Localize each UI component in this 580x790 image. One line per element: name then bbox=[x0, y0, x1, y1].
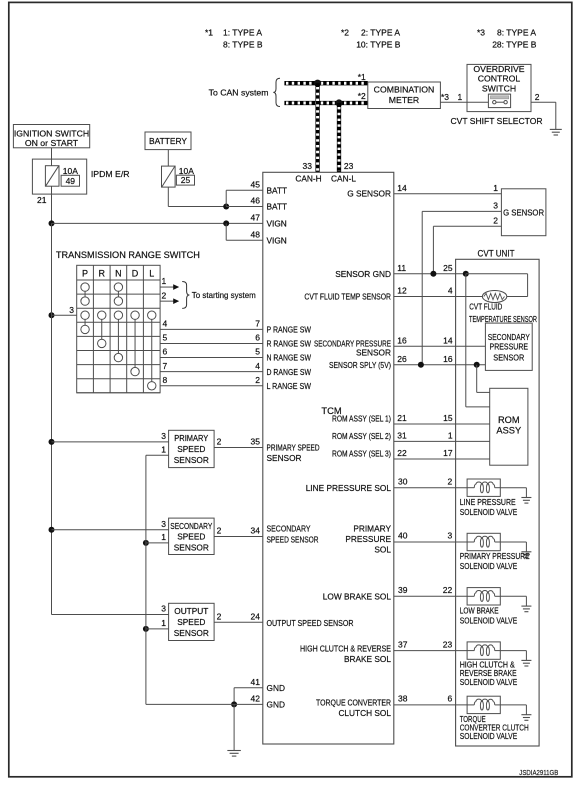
svg-text:LINE PRESSURE: LINE PRESSURE bbox=[460, 497, 516, 507]
low brake solenoid valve coil bbox=[467, 588, 500, 605]
svg-text:PRIMARY PRESSURE: PRIMARY PRESSURE bbox=[460, 551, 530, 561]
wire G3 supply bbox=[422, 210, 501, 212]
wire secondary pin3 bbox=[52, 529, 169, 531]
svg-text:SOLENOID VALVE: SOLENOID VALVE bbox=[460, 561, 518, 571]
g sensor box bbox=[501, 189, 546, 236]
svg-text:SENSOR SPLY (5V): SENSOR SPLY (5V) bbox=[329, 360, 391, 370]
wire CAN-L horizontal bbox=[284, 101, 367, 105]
svg-text:SPEED: SPEED bbox=[177, 444, 205, 454]
svg-text:VIGN: VIGN bbox=[267, 218, 287, 228]
svg-text:N RANGE SW: N RANGE SW bbox=[267, 353, 312, 363]
svg-text:21: 21 bbox=[397, 413, 407, 423]
junction BATT bbox=[223, 204, 229, 210]
svg-text:33: 33 bbox=[303, 161, 313, 171]
wire range out 6 bbox=[160, 357, 263, 359]
junction bus range 3 bbox=[49, 312, 55, 318]
svg-text:To CAN system: To CAN system bbox=[209, 88, 269, 98]
svg-text:IPDM E/R: IPDM E/R bbox=[91, 169, 130, 179]
svg-text:PRIMARY: PRIMARY bbox=[174, 433, 208, 443]
svg-text:P: P bbox=[82, 268, 88, 278]
primary pressure solenoid valve ground wire bbox=[500, 541, 526, 543]
svg-text:46: 46 bbox=[251, 195, 261, 205]
range switch grid bbox=[77, 265, 160, 393]
svg-text:BATTERY: BATTERY bbox=[149, 136, 187, 146]
svg-text:D RANGE SW: D RANGE SW bbox=[267, 367, 312, 377]
junction sensor gnd cvt bbox=[463, 271, 469, 277]
svg-text:7: 7 bbox=[163, 361, 168, 371]
svg-text:47: 47 bbox=[251, 212, 261, 222]
CVT unit box bbox=[456, 259, 539, 746]
svg-text:3: 3 bbox=[447, 531, 452, 541]
svg-text:14: 14 bbox=[443, 335, 453, 345]
wire range out 2 bbox=[160, 300, 173, 302]
svg-text:34: 34 bbox=[251, 526, 261, 536]
wire gnd loop to temp sensor bbox=[466, 273, 528, 275]
svg-text:37: 37 bbox=[398, 639, 408, 649]
high clutch and reverse brake solenoid valve ground wire bbox=[500, 650, 526, 652]
svg-text:4: 4 bbox=[255, 361, 260, 371]
svg-text:23: 23 bbox=[344, 161, 354, 171]
svg-text:30: 30 bbox=[398, 476, 408, 486]
wire output pin3 bbox=[52, 614, 169, 616]
wire output pin1 bbox=[146, 628, 169, 630]
svg-text:JSDIA2911GB: JSDIA2911GB bbox=[519, 768, 558, 777]
svg-text:2: 2 bbox=[217, 611, 222, 621]
svg-text:31: 31 bbox=[397, 431, 407, 441]
svg-text:4: 4 bbox=[163, 318, 168, 328]
svg-text:SPEED SENSOR: SPEED SENSOR bbox=[267, 535, 319, 545]
svg-text:SENSOR: SENSOR bbox=[174, 628, 209, 638]
line pressure solenoid valve ground bbox=[521, 497, 531, 499]
svg-text:SECONDARY: SECONDARY bbox=[488, 332, 530, 342]
svg-text:21: 21 bbox=[37, 195, 47, 205]
svg-text:1: 1 bbox=[161, 618, 166, 628]
svg-text:39: 39 bbox=[398, 585, 408, 595]
svg-text:26: 26 bbox=[397, 354, 407, 364]
ground selector bbox=[550, 128, 562, 130]
svg-text:35: 35 bbox=[251, 437, 261, 447]
svg-text:CVT FLUID TEMP SENSOR: CVT FLUID TEMP SENSOR bbox=[304, 292, 391, 302]
svg-text:25: 25 bbox=[443, 263, 453, 273]
high clutch and reverse brake solenoid valve coil bbox=[467, 642, 500, 659]
svg-text:49: 49 bbox=[66, 176, 76, 186]
wire CAN-H horizontal bbox=[284, 81, 367, 85]
svg-text:SWITCH: SWITCH bbox=[482, 83, 516, 93]
svg-text:38: 38 bbox=[398, 694, 408, 704]
svg-text:SENSOR: SENSOR bbox=[174, 455, 209, 465]
junction GND bbox=[231, 701, 237, 707]
svg-text:11: 11 bbox=[397, 263, 406, 273]
svg-text:OVERDRIVE: OVERDRIVE bbox=[473, 64, 524, 74]
switch symbol bbox=[488, 94, 510, 108]
wire CAN-L vertical bbox=[337, 103, 341, 172]
svg-text:BRAKE SOL: BRAKE SOL bbox=[344, 654, 391, 664]
svg-text:41: 41 bbox=[251, 677, 261, 687]
low brake solenoid valve ground wire bbox=[500, 595, 526, 597]
wire sensor shield bus bbox=[145, 455, 147, 704]
low brake solenoid valve ground bbox=[521, 605, 531, 607]
wire jog to 48 bbox=[225, 223, 227, 240]
svg-text:BATT: BATT bbox=[267, 202, 288, 212]
wire TCM38 to solenoid bbox=[394, 704, 467, 706]
wire G2 gnd bbox=[433, 225, 501, 227]
svg-text:BATT: BATT bbox=[267, 185, 288, 195]
junction ignition bus bbox=[49, 220, 55, 226]
junction sply rom bbox=[474, 362, 480, 368]
range switch contact links bbox=[84, 291, 86, 297]
svg-text:TEMPERATURE SENSOR: TEMPERATURE SENSOR bbox=[469, 314, 537, 324]
wire TCM21 rom15 bbox=[394, 423, 490, 425]
svg-text:2: TYPE A: 2: TYPE A bbox=[361, 28, 400, 38]
svg-text:CLUTCH SOL: CLUTCH SOL bbox=[338, 708, 391, 718]
svg-text:ROM ASSY (SEL 1): ROM ASSY (SEL 1) bbox=[332, 414, 391, 424]
svg-text:VIGN: VIGN bbox=[267, 235, 287, 245]
primary pressure solenoid valve coil bbox=[467, 533, 500, 550]
svg-text:GND: GND bbox=[267, 683, 285, 693]
svg-text:P RANGE SW: P RANGE SW bbox=[267, 325, 312, 335]
svg-text:8: TYPE B: 8: TYPE B bbox=[223, 40, 263, 50]
svg-text:1: 1 bbox=[162, 276, 167, 286]
svg-text:4: 4 bbox=[448, 286, 453, 296]
wire fuse down to junction bbox=[51, 186, 53, 223]
svg-text:CAN-L: CAN-L bbox=[331, 174, 356, 184]
svg-text:SPEED: SPEED bbox=[177, 532, 205, 542]
svg-text:6: 6 bbox=[255, 333, 260, 343]
svg-text:*3: *3 bbox=[477, 28, 485, 38]
svg-text:L RANGE SW: L RANGE SW bbox=[267, 381, 312, 391]
wire CAN-H vertical bbox=[315, 83, 319, 172]
secondary pressure sensor box bbox=[485, 323, 532, 370]
svg-text:48: 48 bbox=[251, 229, 261, 239]
wire meter to overdrive switch bbox=[440, 101, 488, 103]
svg-text:COMBINATION: COMBINATION bbox=[374, 85, 435, 95]
wire range out 8 bbox=[160, 385, 263, 387]
high clutch and reverse brake solenoid valve ground bbox=[521, 659, 531, 661]
torque converter clutch solenoid valve ground wire bbox=[500, 704, 526, 706]
wire bus1 to output sensor bbox=[52, 614, 169, 616]
wire TCM30 to solenoid bbox=[394, 487, 467, 489]
junction CAN-L bbox=[335, 99, 342, 106]
wire jog to 45 bbox=[225, 190, 227, 206]
wire secondary pin2 to TCM 34 bbox=[214, 536, 263, 538]
svg-text:LOW BRAKE: LOW BRAKE bbox=[460, 606, 499, 616]
svg-text:CONTROL: CONTROL bbox=[478, 74, 521, 84]
junction bus2 output 1 bbox=[143, 626, 149, 632]
svg-text:OUTPUT: OUTPUT bbox=[174, 606, 208, 616]
svg-text:R RANGE SW: R RANGE SW bbox=[267, 339, 312, 349]
svg-text:PRIMARY SPEED: PRIMARY SPEED bbox=[267, 443, 320, 453]
svg-text:22: 22 bbox=[397, 448, 407, 458]
svg-text:SENSOR: SENSOR bbox=[174, 542, 209, 552]
svg-text:2: 2 bbox=[217, 437, 222, 447]
fuse number 25 box bbox=[176, 175, 194, 185]
svg-text:*1: *1 bbox=[205, 28, 213, 38]
torque converter clutch solenoid valve coil bbox=[467, 696, 500, 713]
svg-text:To starting system: To starting system bbox=[192, 290, 256, 300]
svg-text:SOLENOID VALVE: SOLENOID VALVE bbox=[460, 677, 518, 687]
range switch contacts bbox=[81, 283, 89, 291]
svg-text:6: 6 bbox=[447, 694, 452, 704]
svg-text:40: 40 bbox=[398, 531, 408, 541]
wire primary pin1 bbox=[146, 454, 169, 456]
svg-text:GND: GND bbox=[267, 700, 285, 710]
svg-text:22: 22 bbox=[443, 585, 453, 595]
svg-text:SOL: SOL bbox=[374, 544, 391, 554]
ground TCM bbox=[227, 750, 241, 752]
svg-text:6: 6 bbox=[163, 347, 168, 357]
junction CAN-H bbox=[314, 80, 321, 87]
wire sply to rom bbox=[476, 365, 478, 393]
svg-text:R: R bbox=[99, 268, 106, 278]
wire TCM16 sps bbox=[394, 345, 486, 347]
svg-text:2: 2 bbox=[535, 92, 540, 102]
brace starting system bbox=[182, 282, 189, 309]
svg-text:SENSOR: SENSOR bbox=[267, 453, 302, 463]
svg-text:1: 1 bbox=[458, 92, 463, 102]
wire TCM11 sensor gnd bbox=[394, 273, 466, 275]
svg-text:15: 15 bbox=[443, 413, 453, 423]
wire TCM31 rom1 bbox=[394, 440, 490, 442]
fuse number 49 box bbox=[61, 175, 79, 186]
svg-text:28: TYPE B: 28: TYPE B bbox=[492, 40, 537, 50]
svg-text:*2: *2 bbox=[341, 28, 349, 38]
svg-text:*3: *3 bbox=[441, 92, 449, 102]
svg-text:16: 16 bbox=[397, 335, 407, 345]
svg-text:14: 14 bbox=[397, 183, 407, 193]
wire secondary pin1 bbox=[146, 542, 169, 544]
svg-text:2: 2 bbox=[493, 215, 498, 225]
svg-text:5: 5 bbox=[163, 333, 168, 343]
svg-text:G SENSOR: G SENSOR bbox=[347, 189, 391, 199]
svg-text:OUTPUT SPEED SENSOR: OUTPUT SPEED SENSOR bbox=[267, 618, 354, 628]
wire range out 5 bbox=[160, 342, 263, 344]
svg-text:1: 1 bbox=[493, 183, 498, 193]
svg-text:1: 1 bbox=[448, 431, 453, 441]
svg-text:SECONDARY: SECONDARY bbox=[170, 521, 212, 531]
svg-text:D: D bbox=[132, 268, 139, 278]
svg-text:*1: *1 bbox=[358, 72, 366, 82]
wire battery to fuse bbox=[167, 150, 169, 167]
junction VIGN bbox=[223, 220, 229, 226]
svg-text:SENSOR: SENSOR bbox=[493, 353, 524, 363]
svg-text:PRESSURE: PRESSURE bbox=[490, 342, 529, 352]
svg-text:ROM ASSY (SEL 3): ROM ASSY (SEL 3) bbox=[332, 449, 391, 459]
wire switch to ground bbox=[531, 101, 556, 103]
svg-text:42: 42 bbox=[251, 694, 261, 704]
wire range 3 bbox=[52, 314, 77, 316]
svg-text:ON or START: ON or START bbox=[25, 138, 79, 148]
junction bus primary 3 bbox=[49, 439, 55, 445]
svg-text:16: 16 bbox=[443, 354, 453, 364]
svg-text:3: 3 bbox=[161, 519, 166, 529]
wire TCM40 to solenoid bbox=[394, 541, 467, 543]
svg-text:2: 2 bbox=[162, 290, 167, 300]
torque converter clutch solenoid valve ground bbox=[521, 714, 531, 716]
wire range out 4 bbox=[160, 328, 263, 330]
wire TCM39 to solenoid bbox=[394, 595, 467, 597]
svg-text:3: 3 bbox=[161, 604, 166, 614]
line pressure solenoid valve ground wire bbox=[500, 487, 526, 489]
svg-text:HIGH CLUTCH & REVERSE: HIGH CLUTCH & REVERSE bbox=[300, 644, 391, 654]
wire TCM22 rom17 bbox=[394, 458, 490, 460]
wire GND 42 bbox=[146, 703, 263, 705]
wire output pin2 to TCM 24 bbox=[214, 621, 263, 623]
svg-text:METER: METER bbox=[389, 95, 419, 105]
svg-text:SPEED: SPEED bbox=[177, 617, 205, 627]
wire GND 41 bbox=[234, 687, 263, 689]
wire primary pin3 bbox=[52, 441, 169, 443]
svg-text:1: 1 bbox=[161, 444, 166, 454]
svg-text:1: TYPE A: 1: TYPE A bbox=[223, 28, 262, 38]
cvt fluid temperature sensor bbox=[482, 291, 506, 303]
wire TCM12 temp bbox=[394, 296, 483, 298]
svg-text:10A: 10A bbox=[63, 166, 78, 176]
svg-text:8: TYPE A: 8: TYPE A bbox=[497, 28, 536, 38]
line pressure solenoid valve coil bbox=[467, 479, 500, 496]
svg-text:45: 45 bbox=[251, 179, 261, 189]
brace CAN bbox=[273, 78, 280, 106]
junction bus2 secondary 1 bbox=[143, 540, 149, 546]
wire range out 7 bbox=[160, 371, 263, 373]
svg-text:1: 1 bbox=[161, 532, 166, 542]
svg-text:ASSY: ASSY bbox=[496, 426, 521, 436]
svg-text:7: 7 bbox=[255, 318, 260, 328]
junction sply G3 bbox=[418, 362, 424, 368]
svg-text:10: TYPE B: 10: TYPE B bbox=[356, 40, 401, 50]
wire ignition bus down bbox=[51, 223, 53, 614]
svg-text:24: 24 bbox=[251, 611, 261, 621]
secondary speed sensor box bbox=[169, 518, 215, 554]
junction G2 gnd bbox=[430, 271, 436, 277]
svg-text:23: 23 bbox=[443, 639, 453, 649]
wire TCM37 to solenoid bbox=[394, 650, 467, 652]
junction bus secondary 3 bbox=[49, 527, 55, 533]
svg-text:TRANSMISSION RANGE SWITCH: TRANSMISSION RANGE SWITCH bbox=[56, 250, 200, 260]
wire TCM26 sply bbox=[394, 364, 486, 366]
svg-text:LOW BRAKE SOL: LOW BRAKE SOL bbox=[323, 592, 392, 602]
fuse 10A 25 bbox=[162, 166, 176, 187]
IPDM E/R box bbox=[32, 159, 86, 194]
svg-text:CVT FLUID: CVT FLUID bbox=[469, 302, 502, 312]
output speed sensor box bbox=[169, 603, 215, 640]
svg-text:IGNITION SWITCH: IGNITION SWITCH bbox=[14, 128, 89, 138]
svg-text:SENSOR: SENSOR bbox=[356, 348, 391, 358]
svg-text:5: 5 bbox=[255, 347, 260, 357]
svg-text:*2: *2 bbox=[358, 91, 366, 101]
svg-text:2: 2 bbox=[255, 375, 260, 385]
svg-text:CVT SHIFT SELECTOR: CVT SHIFT SELECTOR bbox=[451, 116, 543, 126]
wire TCM14 to G1 bbox=[394, 193, 502, 195]
svg-text:SENSOR GND: SENSOR GND bbox=[335, 269, 391, 279]
svg-text:12: 12 bbox=[397, 286, 407, 296]
svg-text:SOLENOID VALVE: SOLENOID VALVE bbox=[460, 507, 518, 517]
svg-text:3: 3 bbox=[161, 431, 166, 441]
primary speed sensor box bbox=[169, 430, 215, 467]
wire ignition to fuse bbox=[51, 148, 53, 166]
svg-text:N: N bbox=[115, 268, 122, 278]
svg-text:LINE PRESSURE SOL: LINE PRESSURE SOL bbox=[306, 483, 392, 493]
svg-text:TORQUE CONVERTER: TORQUE CONVERTER bbox=[316, 698, 391, 708]
wire gnd to rom bbox=[465, 274, 467, 407]
ignition switch box bbox=[13, 125, 89, 148]
wire VIGN 47 bbox=[52, 222, 263, 224]
wire primary pin2 to TCM 35 bbox=[214, 447, 263, 449]
svg-text:G SENSOR: G SENSOR bbox=[503, 207, 544, 217]
fuse 10A 49 bbox=[45, 166, 59, 187]
wire range out 1 bbox=[160, 286, 173, 288]
svg-text:CVT UNIT: CVT UNIT bbox=[478, 249, 515, 259]
svg-text:2: 2 bbox=[447, 476, 452, 486]
svg-text:3: 3 bbox=[493, 201, 498, 211]
svg-text:17: 17 bbox=[443, 448, 453, 458]
primary pressure solenoid valve ground bbox=[521, 551, 531, 553]
svg-text:3: 3 bbox=[69, 305, 74, 315]
svg-text:CAN-H: CAN-H bbox=[295, 174, 321, 184]
svg-text:PRESSURE: PRESSURE bbox=[345, 534, 391, 544]
svg-text:8: 8 bbox=[163, 375, 168, 385]
battery box bbox=[145, 132, 191, 150]
svg-text:SOLENOID VALVE: SOLENOID VALVE bbox=[460, 731, 518, 741]
rom assy box bbox=[490, 388, 528, 465]
svg-text:SECONDARY: SECONDARY bbox=[267, 524, 311, 534]
overdrive control switch box bbox=[467, 64, 531, 111]
svg-text:2: 2 bbox=[217, 526, 222, 536]
svg-text:L: L bbox=[149, 268, 154, 278]
svg-text:ROM: ROM bbox=[498, 415, 520, 425]
svg-text:ROM ASSY (SEL 2): ROM ASSY (SEL 2) bbox=[332, 431, 391, 441]
svg-text:PRIMARY: PRIMARY bbox=[353, 523, 391, 533]
TCM box bbox=[263, 172, 394, 744]
combination meter box bbox=[368, 82, 441, 109]
svg-text:SOLENOID VALVE: SOLENOID VALVE bbox=[460, 616, 518, 626]
wire ground drop bbox=[233, 704, 235, 750]
wire battery fuse down bbox=[167, 187, 169, 206]
svg-text:25: 25 bbox=[181, 175, 191, 185]
wire BATT 46 bbox=[226, 206, 263, 208]
